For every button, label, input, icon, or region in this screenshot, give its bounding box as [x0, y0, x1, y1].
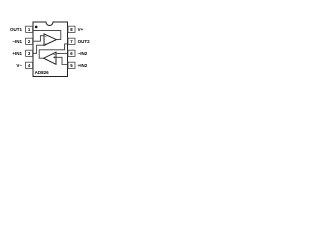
- svg-text:5: 5: [70, 63, 73, 68]
- svg-text:4: 4: [28, 63, 31, 68]
- op-amp U1A (top amplifier, right-pointing triangle): [44, 34, 56, 46]
- svg-text:−IN1: −IN1: [12, 39, 22, 44]
- svg-text:V−: V−: [16, 63, 22, 68]
- wire U1B output loop to pin7: [39, 44, 68, 58]
- svg-text:1: 1: [28, 27, 31, 32]
- pin 3 box: [26, 50, 33, 56]
- svg-text:OUT2: OUT2: [78, 39, 90, 44]
- pin 7 box: [68, 38, 75, 44]
- svg-text:6: 6: [70, 51, 73, 56]
- wire pin2 to U1A -IN: [33, 36, 44, 42]
- svg-text:3: 3: [28, 51, 31, 56]
- pin 1 marker dot: [35, 26, 38, 29]
- U1B plus input sign: [53, 56, 55, 58]
- svg-text:V+: V+: [78, 27, 84, 32]
- U1A minus input sign: [45, 36, 47, 38]
- pin 4 box: [26, 62, 33, 68]
- U1A plus input sign: [45, 43, 47, 45]
- wire pin6 to U1B -IN: [56, 52, 68, 54]
- wire U1A output loop to pin1: [33, 31, 61, 40]
- svg-text:OUT1: OUT1: [10, 27, 22, 32]
- pin 1 box: [26, 26, 33, 32]
- pin 2 box: [26, 38, 33, 44]
- wire pin3 to U1A +IN: [33, 45, 44, 53]
- svg-text:2: 2: [28, 39, 31, 44]
- svg-text:8: 8: [70, 27, 73, 32]
- svg-text:−IN2: −IN2: [78, 51, 88, 56]
- pin 6 box: [68, 50, 75, 56]
- wire pin5 to U1B +IN: [53, 57, 68, 64]
- svg-text:+IN1: +IN1: [12, 51, 22, 56]
- IC package body U1 (8-lead DIP outline with top notch): [33, 22, 68, 77]
- svg-text:AD826: AD826: [35, 70, 50, 75]
- pin 5 box: [68, 62, 75, 68]
- op-amp U1B (bottom amplifier, left-pointing triangle): [44, 52, 56, 64]
- pin 8 box: [68, 26, 75, 32]
- U1B minus input sign: [53, 53, 55, 55]
- svg-text:+IN2: +IN2: [78, 63, 88, 68]
- svg-text:7: 7: [70, 39, 73, 44]
